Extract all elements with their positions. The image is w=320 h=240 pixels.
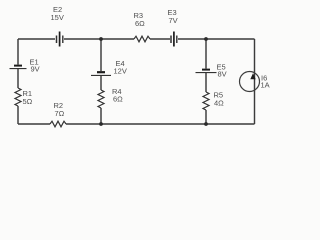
svg-text:7V: 7V [169, 16, 178, 25]
battery E4 [91, 72, 111, 75]
label E1 value 9V [30, 58, 40, 74]
wire middle branch centre [100, 76, 102, 90]
wire E5 branch upper [205, 39, 207, 69]
node junction bottom middle [99, 122, 103, 126]
svg-text:9V: 9V [31, 65, 40, 74]
wire top-right segment [178, 38, 255, 40]
label E3 value 7V [168, 8, 178, 25]
battery E5 [196, 70, 217, 73]
wire left branch middle [17, 69, 19, 88]
node junction bottom E5 [204, 122, 208, 126]
label R4 value 6ohm [112, 87, 123, 104]
battery E3 [171, 32, 177, 47]
svg-text:6Ω: 6Ω [135, 19, 145, 28]
svg-text:15V: 15V [51, 13, 64, 22]
wire bottom middle segment [66, 123, 255, 125]
battery E1 [10, 66, 27, 69]
label I6 value 1A [261, 74, 270, 90]
svg-text:6Ω: 6Ω [113, 95, 123, 104]
wire middle branch upper [100, 39, 102, 71]
wire top-left horizontal segment [18, 38, 55, 40]
node junction top E5 [204, 37, 208, 41]
wire E5 branch centre [205, 73, 207, 92]
resistor R1 [15, 88, 21, 106]
label R3 value 6ohm [134, 11, 146, 28]
resistor R5 [203, 92, 209, 110]
wire right edge upper [254, 39, 256, 124]
svg-text:5Ω: 5Ω [23, 97, 33, 106]
svg-text:8V: 8V [218, 70, 227, 79]
svg-text:1A: 1A [261, 81, 270, 90]
svg-text:12V: 12V [114, 67, 127, 76]
label E5 value 8V [217, 63, 227, 79]
resistor R4 [98, 90, 104, 108]
node junction top middle [99, 37, 103, 41]
wire E5 branch lower [205, 110, 207, 124]
battery E2 [57, 32, 63, 47]
wire left branch upper [17, 39, 19, 65]
resistor R3 [134, 36, 150, 42]
label E4 value 12V [114, 59, 127, 76]
wire middle branch lower [100, 108, 102, 124]
label R5 value 4ohm [214, 91, 225, 108]
label R2 value 7ohm [54, 101, 65, 118]
svg-text:4Ω: 4Ω [214, 99, 224, 108]
label R1 value 5ohm [23, 89, 33, 106]
wire top between R3 and E3 [150, 38, 170, 40]
label E2 value 15V [51, 5, 64, 22]
wire bottom-left segment [18, 123, 50, 125]
wire top middle segment [64, 38, 134, 40]
wire left branch lower [17, 106, 19, 124]
svg-text:7Ω: 7Ω [55, 109, 65, 118]
current source I6 [240, 72, 260, 92]
resistor R2 [50, 121, 66, 127]
